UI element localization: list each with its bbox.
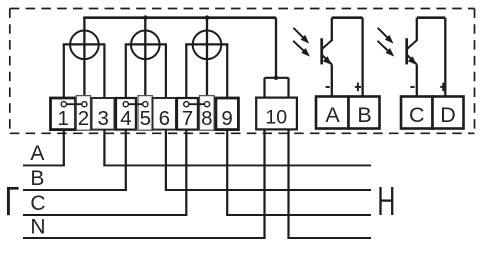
phase B load bus: [165, 189, 371, 191]
generator symbol (Cyrillic Ge): [7, 187, 19, 215]
phase A load bus: [103, 164, 371, 166]
wire: bus drop to terminal 10 fork: [275, 18, 277, 78]
svg-text:C: C: [409, 103, 425, 127]
wire: P2 bar to terminal 4: [125, 44, 127, 101]
svg-text:C: C: [30, 192, 45, 215]
neutral generator bus: [23, 237, 266, 239]
wire: terminal 7 down to phase C generator bus: [185, 130, 187, 215]
current coil bar P1: [63, 43, 106, 45]
phase C load bus: [226, 214, 371, 216]
fork right prong to terminal 10: [287, 78, 289, 98]
wire: terminal 1 down to phase A generator bus: [63, 130, 65, 166]
svg-text:7: 7: [182, 107, 193, 130]
U2 collector top link to D: [417, 16, 446, 19]
neutral load bus: [287, 237, 371, 239]
U1 emitter wire to terminal A: [331, 64, 333, 96]
junction dot at element 3 feed: [205, 15, 210, 20]
wire: bus to terminal 5 through P2: [144, 18, 146, 102]
terminal screw 8: [204, 102, 209, 107]
meter enclosure (dashed border): [10, 9, 475, 134]
terminal box 9: [216, 98, 239, 130]
voltage jumper 7-8: [186, 103, 207, 105]
terminal box A: [316, 97, 349, 129]
svg-text:10: 10: [265, 107, 287, 129]
terminal screw 4: [123, 102, 128, 107]
wire: P3 bar to terminal 9: [226, 44, 228, 98]
terminal box 10: [256, 98, 297, 130]
svg-text:B: B: [357, 103, 371, 127]
minus label (C): [410, 86, 414, 88]
terminal box 1: [51, 98, 76, 130]
terminal screw 1: [61, 102, 66, 107]
wire: terminal 3 down to phase A load bus: [103, 130, 105, 166]
wire: bus to terminal 2 through P1: [83, 18, 85, 102]
svg-text:9: 9: [221, 107, 232, 130]
load symbol (Cyrillic En): [381, 187, 393, 215]
minus label (A): [326, 86, 330, 88]
svg-text:6: 6: [159, 107, 170, 130]
wire: bus to terminal 8 through P3: [206, 18, 208, 102]
phototransistor U1: [322, 38, 332, 65]
wire: P1 bar to terminal 1: [63, 44, 65, 101]
wire: P1 bar to terminal 3: [103, 44, 105, 98]
terminal screw 7: [184, 102, 189, 107]
svg-text:4: 4: [120, 107, 131, 130]
svg-text:2: 2: [78, 107, 89, 130]
terminal box B: [349, 97, 380, 129]
svg-text:B: B: [30, 167, 44, 190]
U1 collector top link to B: [332, 16, 363, 19]
wire: terminal 4 down to phase B generator bus: [125, 130, 127, 190]
U2 wire to terminal D: [444, 18, 446, 97]
svg-text:A: A: [325, 103, 340, 127]
phase C generator bus: [23, 214, 187, 216]
U2 collector wire: [416, 18, 418, 41]
current coil bar P3: [185, 43, 228, 45]
top neutral bus wire: [83, 16, 276, 19]
svg-text:D: D: [440, 103, 456, 127]
wire: terminal 10 down to neutral load bus: [287, 129, 289, 238]
measuring element P1 voltage coil (circle, phase A): [70, 31, 99, 60]
terminal box 6: [153, 98, 177, 130]
U2 emitter wire to terminal C: [416, 64, 418, 96]
junction dot above terminal 10: [274, 76, 278, 80]
terminal box 3: [92, 98, 115, 130]
U1 wire to terminal B: [361, 18, 363, 97]
terminal screw 5: [143, 102, 148, 107]
phototransistor U2: [407, 38, 417, 65]
junction dot at element 2 feed: [143, 15, 148, 20]
voltage jumper 4-5: [126, 103, 146, 105]
optocoupler U1 light arrow 2: [293, 41, 310, 57]
plus label (D): [440, 83, 446, 92]
terminal box 8: [200, 96, 215, 131]
wire: terminal 6 down to phase B load bus: [165, 130, 167, 190]
terminal 10 fork bar: [265, 77, 289, 79]
current coil bar P2: [125, 43, 167, 45]
terminal box D: [433, 97, 464, 129]
svg-text:8: 8: [201, 107, 212, 130]
wire: P2 bar to terminal 6: [165, 44, 167, 98]
optocoupler U1 light arrow 1: [293, 28, 309, 44]
voltage jumper 1-2: [64, 103, 85, 105]
wire: terminal 10 down to neutral generator bus: [263, 129, 265, 238]
terminal box 5: [138, 96, 152, 131]
terminal box 7: [177, 98, 198, 130]
phase B generator bus: [23, 189, 127, 191]
measuring element P3 voltage coil (circle, phase C): [193, 31, 222, 60]
optocoupler U2 light arrow 1: [378, 28, 394, 44]
phase A generator bus: [23, 164, 65, 166]
svg-text:5: 5: [140, 107, 151, 130]
terminal box 2: [76, 96, 90, 131]
svg-text:N: N: [30, 215, 45, 238]
wire: terminal 9 down to phase C load bus: [226, 130, 228, 215]
fork left prong to terminal 10: [263, 78, 265, 98]
terminal box C: [401, 97, 433, 129]
svg-text:3: 3: [97, 107, 108, 130]
terminal box 4: [116, 98, 136, 130]
optocoupler U2 light arrow 2: [377, 41, 394, 57]
wire: P3 bar to terminal 7: [185, 44, 187, 101]
svg-text:A: A: [30, 142, 44, 165]
plus label (B): [355, 83, 361, 92]
U1 collector wire: [331, 18, 333, 41]
terminal screw 2: [82, 102, 87, 107]
svg-text:1: 1: [57, 107, 68, 130]
measuring element P2 voltage coil (circle, phase B): [131, 31, 160, 60]
